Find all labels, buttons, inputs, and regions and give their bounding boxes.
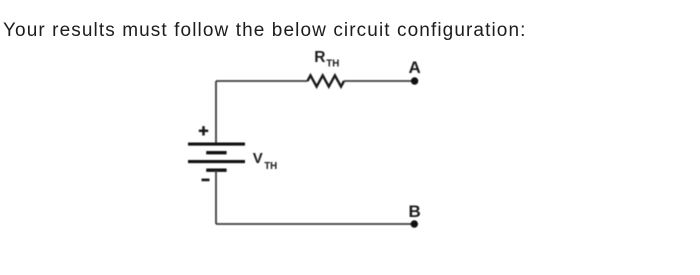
svg-text:V: V xyxy=(253,150,263,167)
svg-text:A: A xyxy=(409,58,421,77)
wire bottom horizontal xyxy=(216,223,414,225)
wire top horizontal left segment xyxy=(216,80,308,82)
wire left vertical top segment xyxy=(215,81,217,144)
svg-text:B: B xyxy=(409,202,421,221)
svg-text:TH: TH xyxy=(264,161,277,172)
battery VTH xyxy=(188,144,245,170)
label B xyxy=(409,202,421,221)
wire left vertical bottom segment xyxy=(215,170,217,224)
resistor RTH xyxy=(308,75,345,86)
svg-text:TH: TH xyxy=(326,59,339,70)
label A xyxy=(409,58,421,77)
label - (battery negative) xyxy=(202,179,210,182)
svg-text:R: R xyxy=(314,49,325,66)
label + (battery positive) xyxy=(199,126,208,135)
node A terminal dot xyxy=(411,77,418,84)
label VTH xyxy=(253,150,277,172)
wire top horizontal right segment xyxy=(344,80,415,82)
node B terminal dot xyxy=(411,220,418,227)
title text xyxy=(3,21,527,40)
label RTH xyxy=(314,49,339,70)
